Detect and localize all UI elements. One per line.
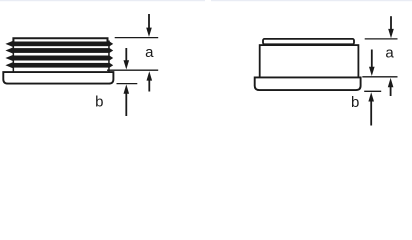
rib 4 of left plug	[5, 62, 113, 68]
dimension b (left): upper arrow	[125, 48, 127, 61]
dimension a (left): upper arrow	[148, 14, 150, 28]
dimension a (left): top extension line	[115, 37, 159, 39]
dimension a (right): upper arrow	[390, 16, 392, 30]
dimension b (right): upper arrow	[371, 50, 373, 68]
rib 1 of left plug	[5, 41, 113, 47]
right cap flange	[255, 77, 361, 90]
right cap body	[260, 45, 359, 78]
dimension a (left): lower arrow	[147, 71, 153, 80]
svg-text:a: a	[385, 44, 394, 61]
ribbed insert plug (left figure) top cap bar	[13, 38, 107, 42]
svg-text:a: a	[145, 44, 154, 61]
rib 2 of left plug	[5, 48, 113, 54]
svg-text:b: b	[95, 94, 103, 111]
dimension a (right): top extension line	[365, 38, 398, 40]
dimension a (right): lower arrow	[388, 78, 394, 87]
dimension a (right): middle extension line	[362, 76, 397, 78]
dimension a (left): middle extension line	[107, 69, 158, 71]
left plug flange	[3, 72, 113, 84]
dimension b (right): bottom extension line	[364, 90, 381, 92]
dimension b (left): bottom extension line	[117, 83, 138, 85]
svg-text:b: b	[351, 94, 359, 111]
faint page border line top	[0, 0, 205, 1]
rib 3 of left plug	[5, 55, 113, 61]
left plug body side walls	[13, 41, 15, 73]
dimension b (right): lower arrow	[368, 92, 374, 101]
dimension b (left): lower arrow	[124, 84, 130, 93]
round end cap (right figure) top lip	[263, 39, 354, 44]
